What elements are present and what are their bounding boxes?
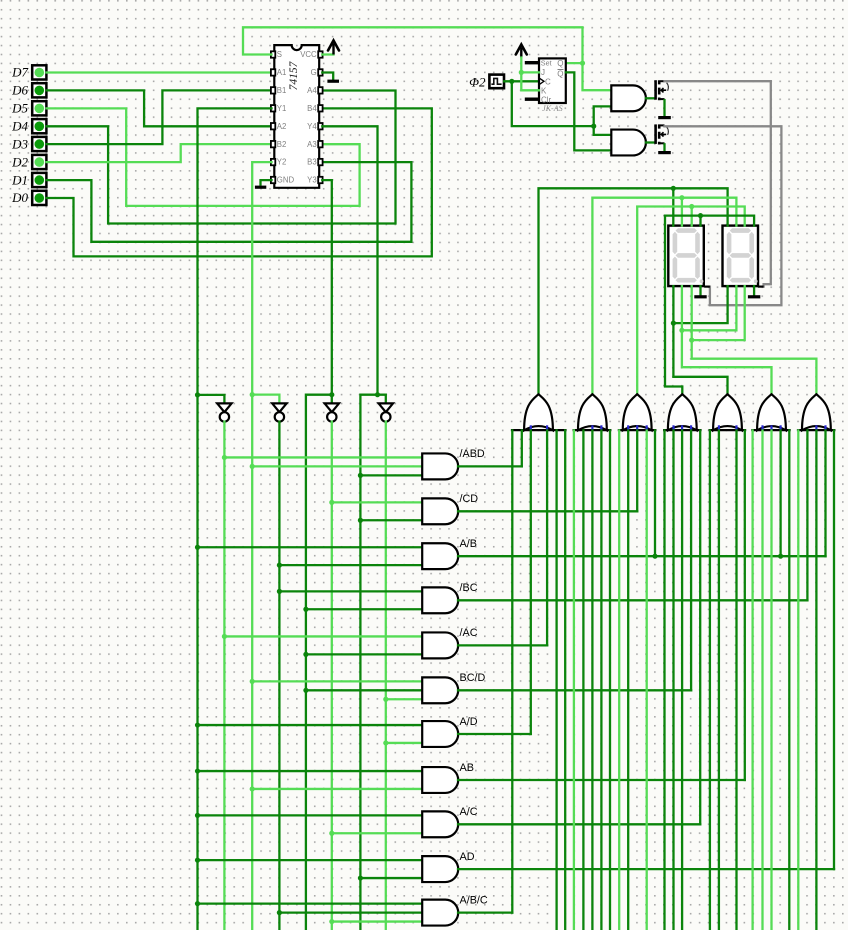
svg-text:D5: D5 [11,101,28,116]
AND gate G1 /ABD [422,453,458,479]
svg-text:D7: D7 [11,65,28,80]
AND gate U3 [611,85,646,111]
pin tick O5 x=718.9 [718,425,720,429]
wire O7 input x=834 [833,430,835,869]
wire product row /CD [458,510,637,512]
junction tap A/C [329,831,334,836]
input pin D3 [11,136,46,151]
AND gate G2 /CD [422,498,458,524]
wire input AB from x=197.5 [198,770,423,772]
OR gate O3 [623,394,652,430]
junction tap /BC [277,589,282,594]
AND gate G11 A/B/C [422,900,458,926]
wire O2 input x=592.4 [591,430,593,930]
wire input /AC from x=305.9 [306,653,422,655]
junction seg-g [689,338,694,343]
ground bar (Q2) [658,151,671,154]
wire O5 input x=736.5 [735,430,737,930]
pin tick O4 x=691.1 [690,425,692,429]
wire seg-c DS1 branch [691,207,693,226]
input pin D1 [11,172,46,187]
AND gate G4 /BC [422,587,458,613]
ground bar (DS2) [748,295,760,298]
wire seg-d DS1 branch [699,216,701,226]
power arrow (J/K high) [520,48,522,58]
IC U1 74157 multiplexer [271,45,323,188]
wire J branch [521,71,539,73]
wire O1 input x=556.6 [555,430,557,930]
wire input AB from x=252.2 [252,788,422,790]
svg-text:Q: Q [557,70,563,79]
svg-text:Y4: Y4 [307,122,317,131]
wire product row AB [458,779,745,781]
wire seg-f DS2 branch [682,286,737,330]
NOT gate N2 [272,403,286,421]
junction tap AD [358,875,363,880]
wire input A/B/C from x=197.5 [198,903,423,905]
svg-text:C: C [545,77,551,86]
wire seg-a DS1 branch [672,188,674,225]
input pin D5 [11,101,46,116]
wire DS1 ground [699,286,701,294]
pin tick O6 x=771.5 [770,425,772,429]
wire Q1 drain to right display common [665,81,771,286]
wire product row /BC [458,599,807,601]
OR gate O5 input line [709,429,747,431]
wire input A/C from x=331.8 [332,832,422,834]
wire seg-e DS2 branch [673,286,727,323]
NOT gate N4 [379,403,393,421]
wire input A/B/C from x=279.4 [279,911,422,913]
junction seg-c [689,204,694,209]
clock source CLK1 [489,75,504,89]
wire product row AD [458,868,834,870]
wire Y3 branch C feed [306,395,332,930]
svg-text:D1: D1 [11,172,28,187]
AND gate G3 A/B [422,543,458,569]
OR gate O2 [578,394,607,430]
wire O2 input x=610 [609,430,611,930]
svg-text:Y2: Y2 [277,158,287,167]
OR gate O7 input line [797,429,836,431]
pin tick O1 x=547.1 [546,425,548,429]
wire O4 input x=700.2 [699,430,701,824]
wire O5 input x=744.8 [744,430,746,780]
wire DS2 ground [753,286,755,294]
transistor Q1 [656,80,669,100]
wire product row A/C [458,823,700,825]
wire D6 to A2 [47,90,272,126]
svg-text:/ABD: /ABD [460,448,485,460]
OR gate O1 input line [511,429,567,431]
wire Qbar to AND4 [566,72,612,150]
wire U3 output [646,97,655,99]
wire O3 input x=646.7 [646,430,648,930]
wire product row /AC [458,644,547,646]
svg-text:/AC: /AC [460,627,478,639]
wire Q to S (top loop) [243,27,583,63]
wire Y3 output [322,180,332,403]
flip-flop U2 JK-AS [539,58,566,112]
wire product row A/B/C [458,911,512,913]
junction tap A/B [277,563,282,568]
wire seg-f net (OR6) [682,286,772,394]
junction Y4 tap [375,392,380,397]
AND gate G10 AD [422,856,458,882]
wire O1 input x=530.8 [530,430,532,734]
wire D4 to A4 [47,91,396,224]
wire O1 input x=512.3 [511,430,513,912]
junction tap AD [195,858,200,863]
AND gate G5 /AC [422,632,458,658]
svg-text:J: J [541,68,545,77]
wire D1 to B3 [47,162,412,242]
OR gate O4 [668,394,697,430]
wire Q2 drain to left display common [665,126,782,305]
wire Y4 to NOT4 [378,395,386,404]
junction tap /AC [222,634,227,639]
wire Y4 branch D feed [360,395,377,930]
wire product row BC/D [458,689,691,691]
svg-text:B2: B2 [277,140,287,149]
junction tap /CD [358,518,363,523]
wire JK high [521,58,539,91]
OR gate O6 input line [751,429,791,431]
wire D3 to B1 [47,90,272,144]
junction seg-a [671,186,676,191]
wire input /AC from x=224.4 [224,635,422,637]
wire input /BC from x=305.9 [306,608,422,610]
svg-text:74157: 74157 [288,60,300,90]
junction tap BC/D [383,697,388,702]
wire seg-b net (OR2) [592,198,736,395]
svg-text:Y1: Y1 [277,104,287,113]
junction tap BC/D [250,679,255,684]
wire O2 input x=601.4 [600,430,602,930]
svg-text:A4: A4 [307,86,317,95]
pin tick O4 x=682.1 [681,425,683,429]
OR gate O7 [802,394,831,430]
input pin D4 [11,119,46,134]
transistor Q2 [656,124,669,144]
wire O2 input x=573.9 [573,430,575,930]
wire input /ABD from x=224.4 [224,456,422,458]
wire input A/D from x=385.8 [386,742,422,744]
wire seg-e net (OR5) [673,286,727,394]
pin tick O3 x=637.2 [636,425,638,429]
wire O7 input x=807.4 [806,430,808,600]
junction tap A/B [195,545,200,550]
wire O5 input x=709.9 [709,430,711,930]
wire O4 input x=664.5 [663,430,665,930]
junction seg-d [698,213,703,218]
wire product row A/D [458,733,531,735]
junction tap A/C [195,813,200,818]
pin tick O2 x=592.4 [591,425,593,429]
junction row A/B x=655 [652,554,657,559]
wire U4 output [646,141,655,143]
AND gate G8 AB [422,767,458,793]
wire product row A/B [458,555,826,557]
wire O2 input x=583.4 [582,430,584,930]
ground bar (Q1) [658,116,671,119]
OR gate O5 [713,394,742,430]
svg-text:Q: Q [557,59,563,68]
wire seg-d net (OR4) [665,216,754,395]
svg-text:BC/D: BC/D [460,672,486,684]
wire input A/D from x=197.5 [198,724,423,726]
wire O7 input x=798.3 [797,430,799,930]
svg-text:G: G [311,68,317,77]
wire O3 input x=637.2 [636,430,638,511]
junction J/K [519,70,524,75]
wire D0 to B4 [47,108,432,256]
wire input /CD from x=331.8 [332,501,422,503]
junction tap /ABD [250,464,255,469]
wire to AND4 upper input [594,126,612,135]
svg-text:A/B: A/B [460,538,477,550]
wire O4 input x=682.1 [681,430,683,930]
wire seg-c net (OR3) [637,207,745,395]
input pin D2 [11,154,46,169]
wire Y1 output [198,108,272,930]
junction tap /ABD [358,473,363,478]
svg-text:AB: AB [460,762,474,774]
input pin D7 [11,65,46,80]
wire to AND3 lower input [594,106,612,126]
svg-text:S: S [277,50,282,59]
wire Q2 source to ground [663,144,665,150]
junction Y3 tap [329,392,334,397]
svg-text:D2: D2 [11,154,28,169]
junction tap BC/D [303,688,308,693]
wire /B feed [278,422,280,930]
junction clock node [509,79,514,84]
junction Y1 tap [195,392,200,397]
wire input /CD from x=360.4 [360,519,422,521]
pin tick O2 x=601.4 [600,425,602,429]
svg-text:B4: B4 [307,104,317,113]
wire seg-g DS2 branch [692,286,745,340]
wire O6 input x=771.5 [770,430,772,930]
pin tick O3 x=646.7 [646,425,648,429]
wire O3 input x=619.2 [618,430,620,930]
wire input A/B/C from x=331.8 [332,920,422,922]
pin tick O6 x=780.6 [779,425,781,429]
junction tap A/B/C [329,919,334,924]
pin tick O7 x=825.5 [824,425,826,429]
wire /A feed [223,422,225,930]
OR gate O2 input line [573,429,612,431]
junction tap A/B/C [195,901,200,906]
ground bar (DS1) [694,295,706,298]
wire O7 input x=825.5 [824,430,826,556]
junction seg-f [679,328,684,333]
wire Q1 source to ground [663,100,665,116]
svg-text:A2: A2 [277,122,287,131]
power arrow VCC (74157) [332,44,334,55]
wire input /ABD from x=252.2 [252,465,422,467]
wire O6 input x=762.5 [761,430,763,930]
pin tick O5 x=736.5 [735,425,737,429]
pin tick O3 x=628.2 [627,425,629,429]
wire O3 input x=628.2 [627,430,629,930]
svg-text:GND: GND [277,176,295,185]
wire GND stub [261,180,272,185]
wire O6 input x=780.6 [779,430,781,556]
pin tick O7 x=816.4 [815,425,817,429]
svg-text:A/D: A/D [460,716,478,728]
svg-text:D4: D4 [11,119,28,134]
wire input A/C from x=197.5 [198,814,423,816]
wire O7 input x=816.4 [815,430,817,930]
svg-text:A/C: A/C [460,806,478,818]
wire seg-a net (OR1) [539,188,728,394]
wire /C feed [331,422,333,930]
wire O5 input x=718.9 [718,430,720,930]
junction clock fanout [591,124,596,129]
wire VCC stub [322,54,333,55]
svg-text:AD: AD [460,851,475,863]
svg-text:Set: Set [541,58,552,67]
junction tap AB [250,786,255,791]
svg-text:A3: A3 [307,140,317,149]
wire D2 to B2 [47,144,272,162]
junction tap A/D [195,722,200,727]
unconnected Set stub [525,61,539,64]
svg-text:A/B/C: A/B/C [460,894,488,906]
wire Y2 output [252,162,271,930]
wire input AD from x=197.5 [198,859,423,861]
wire Y2 to NOT2 [252,395,279,404]
wire O1 input x=521.8 [521,430,523,466]
wire Q branch to AND gate [583,63,612,90]
ground bar (G pin) [327,80,339,83]
svg-text:B3: B3 [307,158,317,167]
wire input BC/D from x=305.9 [306,689,422,691]
wire O1 input x=565.2 [564,430,566,930]
wire O3 input x=655 [654,430,656,556]
wire input BC/D from x=385.8 [386,698,422,700]
OR gate O1 [524,394,553,430]
svg-text:K: K [541,87,547,96]
NOT gate N1 [217,403,231,421]
wire input A/B from x=279.4 [279,564,422,566]
wire Y4 output [322,126,377,394]
unconnected Clr stub [525,97,539,100]
svg-text:JK-AS: JK-AS [542,104,562,113]
wire O4 input x=673.5 [672,430,674,930]
svg-text:Y3: Y3 [307,176,317,185]
svg-text:D3: D3 [11,136,28,151]
wire O6 input x=789.3 [788,430,790,930]
7-segment display DS2 [723,226,759,287]
pin stub right display common [758,286,764,288]
junction tap A/B/C [277,910,282,915]
wire clock down branch [512,81,594,126]
svg-text:D6: D6 [11,83,28,98]
pin tick O4 x=673.5 [672,425,674,429]
junction Q branch [580,61,585,66]
wire D5 to A3 [47,108,360,205]
junction tap /CD [329,500,334,505]
wire product row /ABD [458,465,522,467]
OR gate O4 input line [663,429,702,431]
wire input BC/D from x=252.2 [252,680,422,682]
AND gate U4 [611,130,646,156]
wire O6 input x=752.6 [751,430,753,930]
wire D7 to A1 [47,71,272,73]
pin tick O6 x=762.5 [761,425,763,429]
AND gate G7 A/D [422,721,458,747]
svg-text:/CD: /CD [460,493,479,505]
junction Y2 tap [250,392,255,397]
wire input /BC from x=279.4 [279,590,422,592]
OR gate O6 [757,394,786,430]
junction row A/B x=780.6 [778,554,783,559]
svg-text:VCC: VCC [300,50,317,59]
wire input AD from x=360.4 [360,877,422,879]
OR gate O3 input line [618,429,657,431]
wire Y1 to NOT1 [198,395,225,403]
wire seg-g net (OR7) [692,286,817,394]
wire clock to C [504,80,539,82]
wire input A/B from x=197.5 [198,546,423,548]
svg-text:B1: B1 [277,86,287,95]
wire /D feed [385,422,387,930]
junction tap /ABD [222,455,227,460]
svg-text:/BC: /BC [460,582,478,594]
junction seg-e [671,321,676,326]
svg-text:D0: D0 [11,190,28,205]
wire O1 input x=547.1 [546,430,548,645]
AND gate G6 BC/D [422,677,458,703]
junction tap /AC [303,652,308,657]
junction tap A/D [383,740,388,745]
junction tap AB [195,768,200,773]
svg-text:Φ2: Φ2 [469,74,486,89]
wire input /ABD from x=360.4 [360,474,422,476]
junction seg-b [679,195,684,200]
junction tap /BC [303,607,308,612]
AND gate G9 A/C [422,811,458,837]
wire G stub [322,73,333,79]
pin tick O1 x=530.8 [530,425,532,429]
7-segment display DS1 [668,226,704,287]
svg-text:A1: A1 [277,68,287,77]
input pin D0 [11,190,46,205]
ground bar (GND pin) [255,186,266,189]
NOT gate N3 [325,403,339,421]
wire seg-b DS1 branch [681,198,683,226]
input pin D6 [11,83,46,98]
wire O4 input x=691.1 [690,430,692,690]
pin stub left display common [704,286,710,288]
